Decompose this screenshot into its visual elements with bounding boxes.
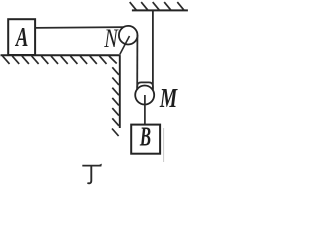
block A — [8, 19, 35, 55]
wire rope from A to pulley N — [35, 26, 124, 29]
pulley N bracket — [120, 36, 130, 54]
pulley M — [135, 86, 154, 105]
label A — [14, 23, 28, 53]
hanger wire from M to B — [144, 95, 146, 125]
label M — [159, 84, 178, 114]
faint scan artifact line — [163, 128, 165, 162]
block B — [131, 125, 160, 154]
pulley N — [119, 26, 138, 45]
ceiling hatching — [130, 2, 185, 10]
rope arc over pulley M — [137, 82, 153, 89]
svg-text:A: A — [14, 23, 28, 53]
label B — [139, 121, 151, 151]
ceiling line — [132, 9, 188, 11]
figure caption 丁 — [82, 164, 102, 184]
svg-text:B: B — [139, 121, 151, 151]
ground (table top) line — [1, 54, 121, 56]
svg-text:N: N — [103, 25, 119, 54]
wire rope from N down to M — [136, 35, 138, 90]
table side wall line — [119, 55, 121, 128]
ground hatching — [3, 56, 117, 64]
svg-text:M: M — [159, 84, 178, 114]
label N — [103, 25, 119, 54]
wire rope from ceiling down to M — [152, 10, 154, 89]
wall hatching — [112, 67, 119, 136]
